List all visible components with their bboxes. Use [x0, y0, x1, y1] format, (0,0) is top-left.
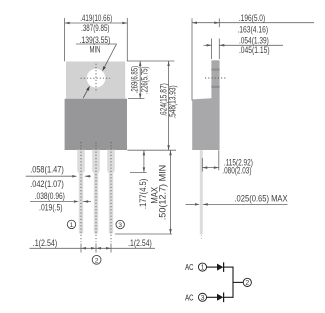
svg-text:.038(0.96): .038(0.96) [35, 191, 65, 201]
dimension line .419 [65, 22, 128, 24]
schematic: terminal 1 [198, 263, 206, 271]
schematic: terminal 2 [243, 278, 251, 286]
dimension line .025 MAX right [203, 203, 288, 205]
extension line body face [218, 150, 220, 170]
side view body [192, 98, 219, 150]
lead 2 [92, 150, 100, 234]
svg-text:.387(9.85): .387(9.85) [81, 23, 109, 33]
lead 3 [107, 150, 115, 234]
pitch tick 3 [110, 244, 112, 253]
wire node to terminal 2 [233, 281, 243, 283]
svg-text:.080(2.03): .080(2.03) [222, 166, 251, 176]
svg-text:2: 2 [95, 257, 99, 264]
svg-text:.177(4.5): .177(4.5) [138, 179, 148, 210]
dimension line .054/.045 [204, 44, 212, 46]
svg-text:.058(1.47): .058(1.47) [30, 164, 64, 174]
svg-text:.226(5.75): .226(5.75) [140, 66, 150, 94]
extension line side body left [191, 18, 193, 100]
svg-text:.548(13.93): .548(13.93) [167, 85, 177, 119]
leader wide lead width [26, 175, 72, 177]
svg-text:.042(1.07): .042(1.07) [30, 179, 64, 189]
dimension line .115/.080 [202, 167, 219, 169]
wire D2 to node [224, 296, 234, 298]
extension line tab top right [128, 60, 175, 62]
svg-text:.025(0.65) MAX: .025(0.65) MAX [234, 194, 287, 204]
svg-text:.054(1.39): .054(1.39) [239, 36, 269, 46]
svg-text:.139(3.55): .139(3.55) [80, 35, 111, 45]
svg-text:.1(2.54): .1(2.54) [33, 238, 58, 248]
diode D1 [217, 264, 223, 271]
pitch tick 1 [80, 244, 82, 253]
hole leader upper [103, 44, 116, 70]
hole leader lower [83, 88, 88, 98]
svg-text:.419(10.66): .419(10.66) [80, 13, 112, 23]
svg-text:.019(.5): .019(.5) [39, 202, 63, 212]
extension line left (.419) [64, 18, 66, 61]
diode D2 [217, 294, 223, 301]
leader narrow lead width [30, 201, 73, 203]
pin 3 callout [116, 220, 124, 228]
extension line side body right [218, 18, 220, 27]
dimension line .269/.226 [139, 61, 141, 99]
svg-text:2: 2 [245, 280, 249, 287]
extension line lead shoulder [130, 171, 147, 173]
extension line lead tips [115, 233, 172, 235]
package front view: tab [66, 62, 125, 99]
lead 1 centerline [80, 142, 82, 242]
svg-text:.196(5.0): .196(5.0) [239, 13, 265, 23]
dimension line .196/.163 [192, 22, 314, 24]
hole centerline horizontal [81, 77, 111, 79]
wire terminal1 to D1 [207, 266, 218, 268]
mounting hole [87, 69, 106, 88]
package front view: body [65, 99, 127, 150]
extension line body bottom right [127, 149, 176, 151]
lead 1 [77, 150, 85, 234]
svg-text:1: 1 [70, 222, 74, 229]
wire D1 to node [224, 266, 234, 268]
extension line tab left [211, 39, 213, 60]
side view lead [200, 150, 203, 234]
svg-text:.045(1.15): .045(1.15) [239, 45, 270, 55]
svg-text:1: 1 [201, 265, 205, 272]
pin 2 callout [92, 255, 101, 264]
svg-text:AC: AC [185, 262, 193, 272]
schematic: terminal 3 [198, 293, 206, 301]
svg-text:3: 3 [118, 222, 122, 229]
wire common cathode vertical [232, 267, 234, 298]
dimension line .025 MAX left [186, 203, 195, 205]
side view hole edge bottom [211, 86, 219, 88]
extension line right (.419) [126, 18, 128, 61]
side lead centerline [200, 235, 202, 241]
side view hole centerline [205, 77, 226, 79]
wire terminal3 to D2 [207, 296, 218, 298]
side view hole edge top [211, 69, 219, 71]
dimension line .624/.548 [168, 61, 170, 150]
lead 3 centerline [110, 142, 112, 242]
side view tab [211, 60, 219, 99]
dimension line .177 MAX [143, 150, 145, 172]
svg-text:.163(4.16): .163(4.16) [237, 25, 268, 35]
svg-text:MIN: MIN [90, 45, 101, 55]
pitch dimension line [30, 247, 156, 249]
svg-text:.50(12.7) MIN: .50(12.7) MIN [158, 165, 168, 221]
pin 1 callout [67, 220, 75, 228]
extension line tab right [218, 39, 220, 60]
svg-text:.269(6.85): .269(6.85) [130, 66, 140, 94]
svg-text:.1(2.54): .1(2.54) [128, 238, 152, 248]
extension line lead face [201, 158, 203, 172]
lead 2 centerline [95, 142, 97, 242]
svg-text:3: 3 [201, 295, 205, 302]
svg-text:AC: AC [185, 292, 193, 302]
extension line tab bottom [128, 98, 144, 100]
dimension line .50 MIN [170, 150, 172, 234]
pitch tick 2 [95, 244, 97, 253]
hole centerline vertical [95, 64, 97, 93]
